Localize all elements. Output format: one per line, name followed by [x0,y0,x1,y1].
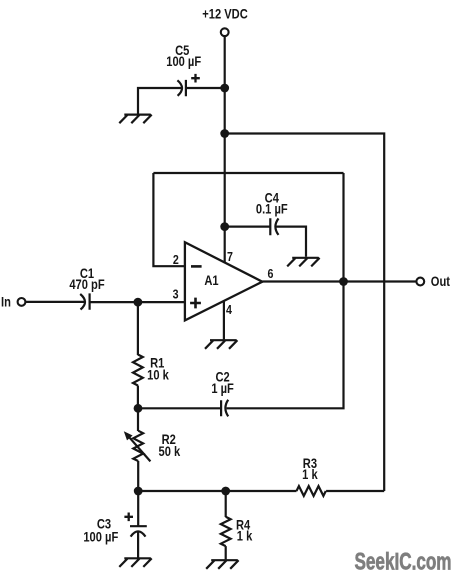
svg-text:100 µF: 100 µF [83,529,118,544]
wire: pin 4 to ground [223,301,225,340]
svg-text:In: In [1,295,11,310]
+12 VDC terminal [221,28,229,36]
wire: R2 to bias node [137,461,139,491]
wire: C5 positive side to rail [186,87,225,89]
wire: C3 to ground [137,532,139,557]
svg-text:Out: Out [431,274,450,289]
svg-text:6: 6 [267,266,273,281]
wire: C4 to ground [276,227,306,257]
input terminal [18,298,26,306]
wire: C1 to pin 3 [90,301,185,303]
C5 plus sign [191,74,200,83]
wire: +12 V rail down to pin 7 [224,36,226,262]
svg-text:1 µF: 1 µF [211,381,234,396]
wire: C5 negative side to ground [138,88,181,114]
junction: C5 node on rail [220,84,229,93]
junction: output / feedback [339,277,348,286]
svg-text:0.1 µF: 0.1 µF [256,201,288,216]
svg-text:SeekIC.com: SeekIC.com [355,549,452,576]
wire: C2 left [138,407,221,409]
svg-text:A1: A1 [204,273,218,288]
wire: bias feed from rail to right side [225,134,385,492]
wire: output from pin 6 [262,280,416,282]
wire: bias bottom rail [138,490,296,492]
potentiometer R2 arrow [124,431,151,461]
wire: feedback right leg upper [342,173,344,282]
capacitor C4 [270,218,278,235]
junction: pin 7 / C4 node [220,222,229,231]
svg-text:1 k: 1 k [302,467,318,482]
wire: pin 3 node down to R1 [137,302,139,355]
wire: R4 top [225,491,227,517]
C2 value label [211,369,234,396]
resistor R1 [133,355,143,386]
capacitor C3 [130,526,147,536]
ground (C5) [119,115,151,124]
capacitor C1 [80,293,89,309]
svg-text:50 k: 50 k [159,444,181,459]
op-amp A1 triangle [185,242,262,320]
resistor R4 [221,517,231,546]
wire: feedback right leg lower to C2 [227,282,344,409]
wire: feedback left leg to pin 2 [153,173,185,266]
junction: R1 / C2 / R2 node [134,404,143,413]
svg-text:100 µF: 100 µF [166,54,201,69]
capacitor C2 [221,400,228,417]
wire: R4 to ground [225,546,227,559]
svg-text:7: 7 [227,249,233,264]
wire: R3 to bias feed leg [326,490,384,492]
potentiometer R2 zigzag [133,431,143,461]
svg-text:10 k: 10 k [147,368,169,383]
wire: C4 node to C4 [225,226,271,228]
A1 inverting input minus sign [191,265,202,268]
capacitor C5 [177,80,186,96]
wire: C3 top [137,491,139,526]
ground (C3) [119,558,151,567]
junction: pin 3 / R1 node [134,298,143,307]
R3 value label [302,456,318,482]
svg-text:1 k: 1 k [237,528,253,543]
svg-text:4: 4 [226,302,232,317]
C4 value label [256,191,288,217]
svg-text:2: 2 [173,252,179,267]
ground (R4) [206,560,238,569]
svg-text:3: 3 [173,286,179,301]
C5 value label [166,43,201,69]
C3 value label [83,516,118,544]
resistor R3 [297,486,326,496]
R1 value label [147,356,169,383]
ground (pin 4) [205,340,237,349]
svg-text:+12 VDC: +12 VDC [202,7,248,22]
C3 plus sign [124,513,133,522]
junction: R4 node [221,487,230,496]
output terminal [416,278,424,286]
C1 value label [69,266,105,292]
svg-text:470 pF: 470 pF [69,277,105,292]
R2 value label [159,432,181,460]
wire: In terminal to C1 [26,301,85,303]
ground (C4) [287,258,319,267]
R4 value label [236,517,252,543]
A1 non-inverting input plus sign [190,298,201,309]
junction: R2 / C3 bias node [134,487,143,496]
wire: feedback box top [153,172,343,174]
junction: bias feed node on rail [220,129,229,138]
wire: R2 top [137,408,139,431]
wire: R1 to C2 node [137,386,139,409]
